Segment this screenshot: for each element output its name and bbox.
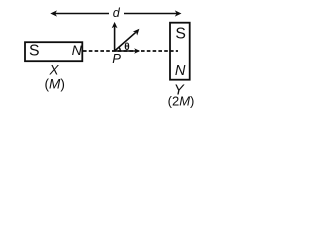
- svg-text:P: P: [112, 51, 121, 66]
- svg-text:X: X: [48, 63, 59, 78]
- svg-text:S: S: [175, 25, 186, 42]
- svg-text:N: N: [175, 63, 186, 79]
- svg-text:(M): (M): [45, 76, 65, 91]
- svg-text:θ: θ: [124, 42, 129, 53]
- svg-text:d: d: [113, 6, 121, 20]
- svg-text:(2M): (2M): [168, 93, 195, 108]
- svg-text:N: N: [72, 43, 83, 59]
- svg-text:S: S: [29, 43, 40, 60]
